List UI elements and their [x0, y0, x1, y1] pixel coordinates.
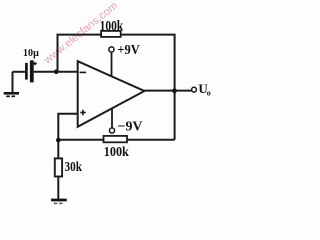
- wire cap to op-amp inverting input: [34, 71, 78, 73]
- -9V supply lead: [111, 109, 113, 128]
- wire bottom feedback: [58, 139, 174, 141]
- +9V terminal circle: [109, 47, 114, 52]
- capacitor C1 10u plates: [26, 60, 31, 82]
- op-amp minus input mark: [80, 71, 87, 73]
- ground bottom: [51, 200, 67, 203]
- wire output: [144, 90, 191, 92]
- wire top horizontal (node - to output): [58, 35, 175, 140]
- svg-text:−9V: −9V: [118, 119, 143, 134]
- ground left: [4, 93, 19, 96]
- node A junction dot (cap / feedback): [54, 70, 59, 75]
- svg-text:o: o: [207, 88, 211, 97]
- -9V terminal circle: [109, 128, 114, 133]
- svg-text:30k: 30k: [65, 160, 83, 175]
- node B junction dot (plus input / feedback / 30k): [56, 138, 61, 143]
- resistor R2 100k bottom: [104, 136, 128, 142]
- +9V supply lead: [111, 53, 113, 76]
- capacitor polarity +: [33, 62, 37, 66]
- wire left ground drop: [12, 72, 14, 92]
- svg-text:10μ: 10μ: [23, 47, 39, 59]
- resistor R1 100k top: [101, 31, 121, 37]
- op-amp U1 triangle: [78, 61, 145, 127]
- wire capacitor input horizontal: [13, 71, 26, 73]
- node C output junction dot: [172, 88, 177, 93]
- wire + input to lower node: [58, 114, 77, 159]
- svg-text:100k: 100k: [100, 19, 124, 35]
- resistor R3 30k vertical: [55, 158, 62, 176]
- svg-text:100k: 100k: [104, 145, 129, 160]
- wire 30k to ground: [57, 177, 59, 200]
- op-amp plus input mark: [80, 110, 85, 116]
- svg-text:+9V: +9V: [117, 43, 139, 58]
- output terminal circle: [192, 87, 197, 92]
